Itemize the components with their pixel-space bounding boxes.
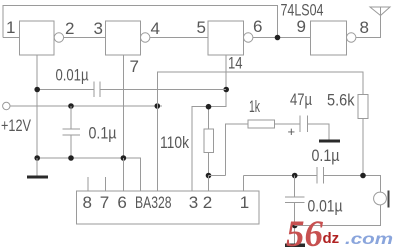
wire U1B out to U1C in — [150, 37, 208, 39]
svg-text:dz: dz — [323, 230, 340, 247]
wire 1k left vertical — [226, 124, 248, 176]
inverter U1C bubble — [244, 33, 253, 42]
node pin14/cap bus — [223, 87, 229, 93]
earphone BP body — [374, 192, 387, 205]
ground bar 47u — [319, 140, 340, 143]
node pin2 junction — [206, 173, 212, 179]
svg-text:+12V: +12V — [1, 116, 31, 135]
svg-text:7: 7 — [130, 57, 139, 76]
wire earphone return — [295, 205, 381, 226]
ground bar left — [27, 176, 48, 179]
node 12V/5.6k branch — [155, 103, 161, 109]
svg-text:6: 6 — [117, 193, 126, 212]
svg-text:47µ: 47µ — [290, 90, 312, 109]
pin stub 6 — [122, 158, 124, 191]
capacitor C1 0.01u plates — [94, 82, 100, 98]
inverter U1A bubble — [54, 33, 63, 42]
wire +12V bus — [10, 105, 162, 107]
svg-text:8: 8 — [360, 18, 369, 37]
node 5.6k/audio — [360, 173, 366, 179]
wire 110k bottom lead — [208, 153, 210, 176]
svg-text:56: 56 — [286, 214, 324, 247]
svg-text:2: 2 — [203, 193, 212, 212]
wire U1C out to U1D in — [253, 37, 311, 39]
wire pin1 stub — [243, 176, 245, 192]
IC BA328 box — [76, 191, 259, 224]
svg-text:BA328: BA328 — [135, 193, 172, 212]
inverter U1A box — [20, 21, 55, 55]
node gate1 pin7 / bus — [34, 87, 40, 93]
svg-text:110k: 110k — [160, 133, 189, 152]
wire U1C pin14 down — [192, 55, 226, 191]
svg-text:1: 1 — [240, 193, 249, 212]
wire pin2 to 1k branch — [208, 176, 210, 192]
wire 0.01u bus left — [37, 89, 94, 91]
node 12V/C2 — [68, 103, 74, 109]
capacitor C4 47u plates — [300, 116, 307, 133]
svg-text:7: 7 — [100, 193, 109, 212]
terminal +12V — [3, 102, 10, 109]
wire audio line — [244, 175, 317, 177]
wire feedback loop top — [3, 6, 278, 38]
node earphone return — [292, 223, 298, 229]
wire U1D out to antenna — [356, 16, 381, 38]
wire 0.01u bus right — [100, 89, 226, 91]
inverter U1B bubble — [141, 33, 150, 42]
svg-text:5: 5 — [197, 18, 206, 37]
wire 110k top lead — [208, 107, 210, 129]
svg-text:14: 14 — [228, 54, 243, 73]
wire U1B pin7 down — [122, 55, 124, 158]
wire audio line right — [323, 176, 380, 193]
svg-text:3: 3 — [189, 193, 198, 212]
resistor R3 1k body — [248, 120, 275, 128]
capacitor C5 0.01u vertical — [285, 176, 304, 244]
inverter U1D box — [311, 21, 347, 55]
capacitor C6 0.1u plates — [317, 167, 323, 184]
svg-text:6: 6 — [253, 17, 262, 36]
svg-text:0.1µ: 0.1µ — [89, 124, 117, 143]
inverter U1B box — [106, 21, 141, 55]
node 110k top — [206, 104, 212, 110]
svg-text:1: 1 — [6, 18, 15, 37]
inverter U1C box — [208, 21, 244, 55]
svg-text:1k: 1k — [249, 97, 260, 116]
wire C4 to ground — [307, 124, 329, 140]
svg-text:0.01µ: 0.01µ — [56, 66, 89, 85]
ground bar bottom — [285, 244, 305, 247]
earphone bar — [387, 191, 389, 208]
pin stub 8 — [87, 177, 89, 191]
svg-text:5.6k: 5.6k — [327, 91, 355, 110]
node audio C5 — [292, 173, 298, 179]
ground stub left — [36, 158, 38, 176]
node junction feedback/U1D — [275, 35, 281, 41]
svg-text:.com: .com — [345, 231, 393, 247]
node gnd gate2 — [121, 155, 127, 161]
svg-text:0.01µ: 0.01µ — [308, 197, 343, 216]
wire 1k branch — [209, 175, 226, 177]
capacitor C2 0.1u — [62, 106, 80, 158]
svg-text:4: 4 — [151, 19, 160, 38]
inverter U1D bubble — [347, 33, 356, 42]
wire 1k to C4 — [275, 123, 301, 125]
wire 5.6k bottom lead — [362, 118, 364, 175]
wire U1A out to U1B in — [64, 37, 106, 39]
svg-text:0.1µ: 0.1µ — [312, 146, 340, 165]
resistor R2 5.6k body — [358, 95, 368, 119]
antenna — [370, 7, 390, 16]
node gnd gate1 — [34, 155, 40, 161]
resistor R1 110k body — [204, 129, 214, 153]
svg-text:+: + — [288, 124, 296, 139]
svg-text:9: 9 — [297, 17, 306, 36]
wire U1A pin7 down — [36, 55, 38, 158]
node gnd C2 — [68, 155, 74, 161]
ground bus wire — [37, 158, 140, 191]
pin stub 7 — [105, 177, 107, 191]
wire 12V branch vertical — [157, 72, 363, 191]
svg-text:3: 3 — [94, 19, 103, 38]
svg-text:8: 8 — [83, 193, 92, 212]
svg-text:2: 2 — [65, 19, 74, 38]
wire gate U1A input — [3, 37, 20, 39]
